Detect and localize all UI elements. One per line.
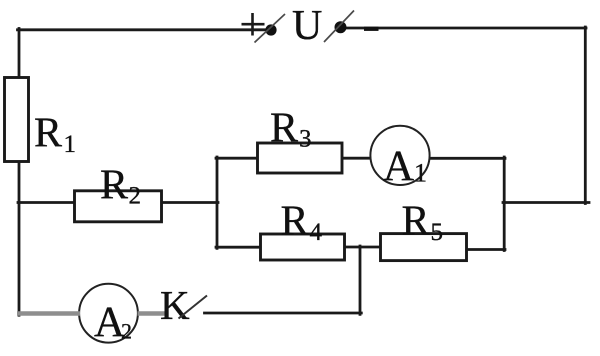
svg-text:5: 5 [431, 219, 444, 246]
resistor R1 [5, 78, 29, 162]
wire bottom from switch to junction drop [205, 312, 362, 315]
wire mid junction vertical [216, 157, 219, 248]
ammeter A2 [79, 284, 138, 343]
svg-text:4: 4 [310, 219, 323, 246]
svg-text:R: R [281, 199, 309, 245]
wire left vertical lower (R1 down to bottom) [18, 162, 21, 316]
resistor R3 [258, 143, 343, 173]
wire right bus vertical [503, 157, 506, 251]
battery minus sign [364, 27, 379, 31]
wire junction drop between R4 and R5 [359, 246, 362, 314]
wire R4 to R5 [345, 246, 381, 249]
wire top left from corner to + terminal [18, 28, 266, 31]
svg-text:R: R [270, 106, 298, 152]
svg-text:1: 1 [64, 131, 77, 158]
wire left vertical upper (top wire to R1) [18, 29, 21, 79]
battery terminal dot right [335, 21, 347, 33]
wire bottom branch to R4 [216, 246, 261, 249]
wire middle-right horizontal [503, 201, 589, 204]
svg-text:A: A [383, 143, 414, 190]
resistor R5 [381, 234, 467, 261]
wire gray A2 to switch K [138, 311, 166, 316]
battery terminal dot left [265, 24, 276, 35]
wire gray bottom left to A2 [17, 311, 80, 316]
wire far-right vertical [584, 27, 587, 204]
svg-text:R: R [402, 199, 430, 245]
svg-text:3: 3 [299, 126, 312, 153]
wire top right from - terminal to top-right corner [344, 27, 586, 30]
resistor R4 [261, 234, 345, 260]
svg-text:2: 2 [129, 183, 142, 210]
ammeter A1 [370, 126, 429, 185]
svg-text:1: 1 [414, 159, 427, 188]
svg-text:2: 2 [121, 319, 132, 344]
terminal slash right [324, 11, 354, 43]
battery plus sign [242, 13, 265, 36]
svg-text:K: K [160, 282, 190, 328]
wire top branch to R3 [216, 157, 258, 160]
wire R2 branch left (junction to R2) [18, 201, 75, 204]
svg-text:U: U [292, 3, 322, 49]
wire R2 to mid junction [162, 201, 219, 204]
resistor R2 [75, 191, 162, 222]
wire R3 to ammeter A1 [342, 157, 371, 160]
svg-text:R: R [100, 163, 128, 209]
terminal slash left [255, 14, 286, 43]
switch K blade slash [179, 296, 208, 319]
svg-text:R: R [34, 111, 62, 157]
wire A1 to right bus [430, 157, 506, 160]
wire R5 to right bus [467, 248, 506, 251]
